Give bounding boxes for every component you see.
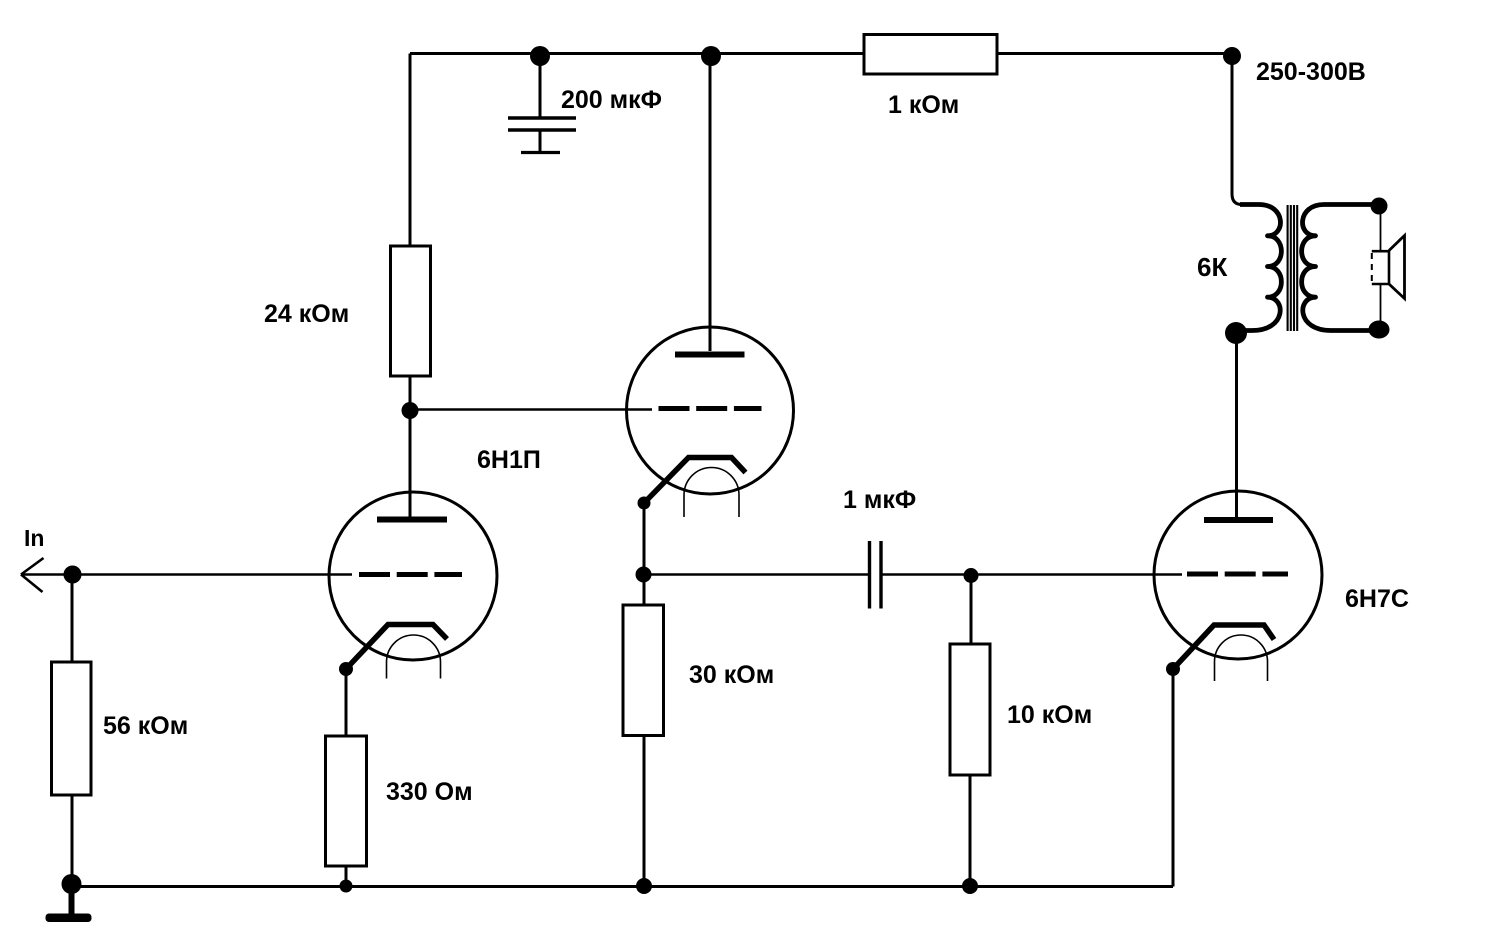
node transformer bottom-left bbox=[1225, 322, 1247, 344]
node 30k / coupling bbox=[636, 567, 652, 583]
wire left drop from rail to 24k bbox=[409, 54, 412, 247]
node input / 56k bbox=[64, 566, 82, 584]
svg-text:330 Ом: 330 Ом bbox=[386, 778, 473, 806]
capacitor 1 мкФ bbox=[870, 541, 882, 609]
wire speaker to secondary bottom bbox=[1380, 284, 1382, 330]
wire transformer to V2 plate bbox=[1235, 333, 1238, 517]
wire corner down to transformer bbox=[1232, 56, 1242, 205]
resistor 30 кОм bbox=[623, 605, 664, 736]
wire input node to 56k bbox=[71, 575, 74, 663]
resistor 10 кОм bbox=[950, 644, 990, 775]
wire 1k to corner bbox=[997, 52, 1232, 55]
node corner B+ bbox=[1223, 47, 1241, 65]
node secondary top bbox=[1371, 198, 1388, 215]
svg-text:In: In bbox=[24, 525, 44, 551]
ground bbox=[46, 884, 92, 922]
wire 10k to rail bbox=[969, 775, 972, 886]
input arrow In bbox=[21, 558, 44, 592]
tube V1a grid bbox=[359, 572, 462, 577]
node 330/rail bbox=[340, 880, 353, 893]
wire 330 to rail bbox=[345, 866, 348, 886]
svg-text:6К: 6К bbox=[1197, 252, 1227, 282]
node ground corner bbox=[62, 874, 82, 894]
tube V2 plate bbox=[1204, 517, 1273, 523]
tube V2 cathode bbox=[1173, 625, 1274, 669]
node top rail / 200uF bbox=[530, 46, 550, 66]
tube V1b cathode bbox=[644, 458, 746, 504]
node junction 24k/plate/grid2 bbox=[402, 402, 419, 419]
tube V1a cathode bbox=[346, 625, 447, 670]
node V1a cathode bbox=[339, 662, 353, 676]
tube V1a 6Н1П envelope bbox=[329, 492, 497, 660]
tube V1b 6Н1П envelope bbox=[627, 327, 794, 494]
wire 56k to ground rail bbox=[71, 795, 74, 884]
wire rail to V1b plate bbox=[709, 56, 712, 351]
wire top rail B+ bbox=[410, 52, 1232, 55]
node top rail / V1b plate bbox=[701, 46, 721, 66]
resistor 24 кОм bbox=[391, 246, 431, 376]
wire 30k to rail bbox=[643, 736, 646, 887]
transformer T1 secondary winding bbox=[1302, 205, 1379, 331]
node secondary bottom bbox=[1369, 321, 1390, 339]
svg-text:1 мкФ: 1 мкФ bbox=[843, 486, 916, 514]
speaker LS1 bbox=[1372, 236, 1405, 299]
tube V1a plate bbox=[377, 517, 447, 523]
svg-text:250-300В: 250-300В bbox=[1256, 58, 1366, 86]
svg-text:6Н7С: 6Н7С bbox=[1345, 585, 1409, 613]
wire node to 10k bbox=[970, 576, 973, 645]
wire 24k bottom to V1a plate bbox=[409, 376, 412, 520]
transformer T1 core bbox=[1288, 205, 1298, 331]
tube V1b grid bbox=[659, 406, 762, 411]
capacitor 200 мкФ bbox=[508, 118, 576, 153]
svg-text:30 кОм: 30 кОм bbox=[689, 661, 774, 689]
wire coupling node to cap bbox=[644, 573, 868, 576]
tube V1a heater bbox=[387, 635, 441, 679]
node 30k/rail bbox=[636, 878, 652, 894]
svg-text:56 кОм: 56 кОм bbox=[103, 712, 188, 740]
node V2 cathode bbox=[1166, 662, 1180, 676]
wire bottom rail bbox=[72, 885, 1174, 888]
svg-text:24 кОм: 24 кОм bbox=[264, 300, 349, 328]
resistor 1 кОм bbox=[864, 35, 997, 75]
tube V1b heater bbox=[684, 468, 739, 518]
tube V2 heater bbox=[1215, 635, 1268, 681]
node 10k/rail bbox=[962, 878, 978, 894]
wire junction to V1b grid bbox=[410, 408, 652, 411]
svg-text:200 мкФ: 200 мкФ bbox=[561, 86, 662, 114]
wire V2 cathode to rail bbox=[1172, 669, 1175, 887]
capacitor 200 мкФ lead bbox=[539, 56, 542, 117]
tube V1b plate bbox=[675, 352, 745, 358]
tube V2 6Н7С envelope bbox=[1154, 491, 1322, 659]
wire cap to V2 grid bbox=[883, 573, 1183, 576]
wire secondary top to speaker bbox=[1380, 206, 1382, 252]
resistor 56 кОм bbox=[52, 662, 92, 795]
node cap / 10k bbox=[964, 568, 979, 583]
svg-text:6Н1П: 6Н1П bbox=[477, 446, 541, 474]
node V1b cathode bbox=[638, 497, 651, 510]
transformer T1 primary winding bbox=[1240, 205, 1281, 331]
resistor 330 Ом bbox=[326, 736, 367, 866]
tube V2 grid bbox=[1187, 572, 1288, 577]
svg-text:1 кОм: 1 кОм bbox=[888, 91, 959, 119]
wire cathode to 330 bbox=[345, 669, 348, 736]
wire input to V1a grid bbox=[21, 573, 352, 576]
svg-text:10 кОм: 10 кОм bbox=[1007, 701, 1092, 729]
wire V1b cathode down to 30k bbox=[643, 503, 646, 605]
